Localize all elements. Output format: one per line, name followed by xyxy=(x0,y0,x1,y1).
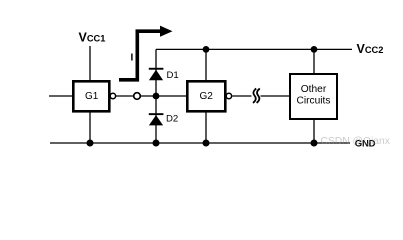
svg-text:Circuits: Circuits xyxy=(297,95,331,106)
svg-text:I: I xyxy=(131,53,134,64)
svg-text:VCC1: VCC1 xyxy=(79,31,106,45)
svg-text:D1: D1 xyxy=(167,70,179,81)
svg-text:Other: Other xyxy=(301,84,327,95)
svg-text:G1: G1 xyxy=(85,91,99,102)
svg-text:CSDN @Qianx: CSDN @Qianx xyxy=(321,136,391,147)
svg-text:VCC2: VCC2 xyxy=(357,42,384,56)
svg-text:D2: D2 xyxy=(166,113,178,124)
svg-text:G2: G2 xyxy=(200,91,214,102)
